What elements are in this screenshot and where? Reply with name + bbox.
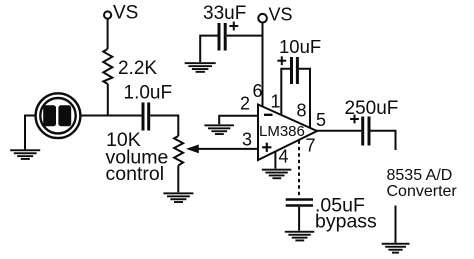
capacitor C4 .05uF bypass bottom plate: [286, 204, 313, 207]
svg-text:bypass: bypass: [315, 211, 377, 233]
capacitor C2 33uF left plate: [218, 23, 221, 51]
capacitor C3 10uF right plate: [296, 57, 299, 84]
ground below C4 bypass: [285, 231, 315, 242]
plus sign C5: [350, 118, 359, 120]
op-amp minus sign: [264, 114, 273, 116]
capacitor C5 250uF left plate: [361, 117, 364, 146]
svg-text:250uF: 250uF: [345, 98, 399, 119]
ground below C2 33uF: [185, 62, 216, 73]
svg-text:8: 8: [297, 101, 307, 121]
capacitor C4 .05uF bypass top plate: [286, 198, 313, 201]
plus sign C2: [229, 25, 238, 27]
resistor R1 2.2K zigzag: [103, 49, 112, 84]
svg-text:5: 5: [316, 110, 326, 130]
svg-text:1: 1: [271, 92, 281, 112]
svg-text:33uF: 33uF: [203, 3, 246, 24]
wire converter node to ground: [395, 206, 397, 243]
svg-text:2.2K: 2.2K: [118, 58, 157, 79]
capacitor C3 10uF left plate: [290, 57, 293, 84]
wire C1 to potentiometer top: [150, 116, 178, 137]
wire pin 5 output to C5: [317, 130, 362, 132]
ground at pin 2: [204, 124, 234, 135]
ground below converter node: [382, 243, 410, 254]
dashed wire pin 7 to bypass cap: [298, 141, 300, 199]
microphone MIC outer ring: [36, 93, 81, 138]
microphone MIC left element: [43, 105, 56, 126]
wire C4 to ground: [298, 207, 300, 231]
wire C2 left lead down: [200, 36, 217, 62]
wire C3 right lead to pin 8: [299, 69, 310, 129]
ground at pin 4: [262, 169, 292, 180]
svg-text:control: control: [106, 163, 165, 185]
svg-text:LM386: LM386: [259, 123, 305, 140]
svg-text:1.0uF: 1.0uF: [124, 83, 173, 104]
op-amp plus sign: [262, 146, 271, 148]
power VS1 terminal circle: [104, 11, 111, 18]
svg-text:6: 6: [253, 81, 263, 101]
svg-text:3: 3: [242, 130, 252, 150]
wire VR1 bottom lead: [177, 166, 179, 193]
plus sign C3: [277, 60, 286, 62]
ground below MIC: [10, 149, 40, 160]
wire C3 left lead to pin 1: [281, 69, 290, 116]
svg-text:4: 4: [279, 147, 289, 167]
op-amp U1 LM386 triangle: [258, 105, 317, 161]
potentiometer VR1 10K zigzag: [174, 136, 183, 166]
svg-text:7: 7: [306, 136, 316, 156]
wire MIC right lead to node A: [81, 115, 142, 117]
wire VS1 to resistor R1 top: [107, 19, 109, 49]
wire VS2 down to pin 6: [262, 23, 264, 108]
capacitor C1 1.0uF left plate: [142, 103, 145, 131]
svg-text:VS: VS: [269, 5, 293, 25]
capacitor C2 33uF right plate: [224, 23, 227, 51]
svg-text:VS: VS: [113, 3, 138, 24]
ground below potentiometer VR1: [163, 192, 193, 203]
microphone MIC right element: [58, 105, 71, 126]
svg-text:2: 2: [240, 94, 250, 114]
wire MIC left lead: [25, 116, 36, 150]
wire pin 2 to ground stub: [219, 116, 257, 125]
capacitor C1 1.0uF right plate: [147, 103, 150, 131]
wire wiper to pin 3: [198, 148, 258, 150]
svg-text:Converter: Converter: [387, 183, 458, 200]
svg-text:8535 A/D: 8535 A/D: [387, 167, 453, 184]
wire pin 4 to ground: [274, 152, 276, 169]
wire resistor R1 bottom to signal node: [107, 84, 109, 117]
svg-text:10uF: 10uF: [279, 36, 321, 57]
capacitor C5 250uF right plate: [368, 117, 371, 146]
potentiometer wiper arrow: [186, 145, 199, 154]
wire C5 output down to converter: [371, 131, 396, 150]
power VS2 terminal circle: [258, 14, 267, 23]
wire C2 right lead to VS2 net: [227, 35, 263, 37]
microphone MIC inner ring: [40, 98, 75, 133]
